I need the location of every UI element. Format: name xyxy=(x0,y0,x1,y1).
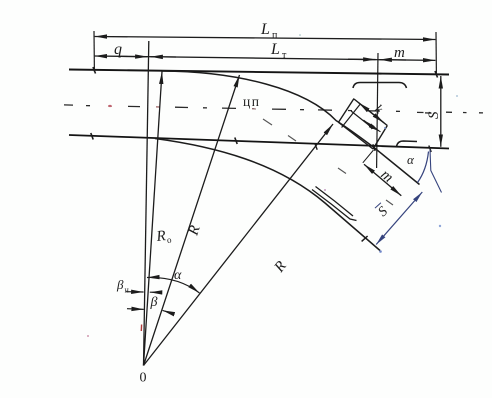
small double arrow inside frog xyxy=(364,120,372,126)
dimension extension line frog center (x=377) xyxy=(377,53,378,168)
turnout upper curve xyxy=(162,71,374,148)
frog inner line parallel top edge xyxy=(351,111,373,128)
beta_n dimension xyxy=(126,291,144,293)
svg-text:н: н xyxy=(125,286,130,295)
m dimension along diagonal xyxy=(364,164,401,196)
tick on bottom rail x=430 xyxy=(429,146,431,153)
tick on top rail at x=94 xyxy=(93,67,96,74)
alpha arc at O xyxy=(147,277,200,293)
svg-text:R: R xyxy=(271,258,290,276)
svg-text:α: α xyxy=(174,268,182,283)
frog block outline xyxy=(339,99,388,150)
k dimension arrows on top edge xyxy=(359,103,371,112)
tick on bottom rail x=316 xyxy=(315,143,317,150)
svg-text:о: о xyxy=(166,234,172,244)
svg-text:S: S xyxy=(426,111,442,119)
svg-text:q: q xyxy=(114,41,122,58)
bracket above bottom rail right xyxy=(397,141,418,147)
svg-text:0: 0 xyxy=(140,371,147,386)
dimension extension line right (x=436) xyxy=(435,32,437,75)
svg-text:β: β xyxy=(116,277,124,292)
diverging track centerline dashes xyxy=(263,119,393,205)
L_t right arrow / m left arrow pair at x=377 xyxy=(348,58,376,60)
bracket pair along lower curve xyxy=(312,190,357,221)
q right arrow pair at x=148.5 xyxy=(120,55,148,57)
label R middle xyxy=(185,224,203,239)
track centerline dash-dot xyxy=(64,105,483,113)
dimension extension line left (x=94) xyxy=(93,31,95,72)
tick frog point on bottom rail x=374 xyxy=(373,144,375,151)
S vertical dimension at right xyxy=(440,76,442,147)
tick on bottom rail x=236 xyxy=(235,138,237,145)
bracket under top rail xyxy=(353,83,407,89)
dimension line L_t / q / m xyxy=(95,56,436,60)
scan noise specks xyxy=(87,34,458,337)
tick at lower curve end xyxy=(362,236,368,241)
turnout lower curve xyxy=(155,139,380,251)
label m diagonal xyxy=(377,167,396,186)
S gauge dimension diagonal (blue) xyxy=(376,192,422,245)
top rail xyxy=(69,70,449,75)
label S vertical xyxy=(426,111,442,119)
radius line R to frog xyxy=(144,124,334,366)
svg-text:m: m xyxy=(394,45,405,61)
tick on bottom rail x=92 xyxy=(91,133,93,140)
radius line R to ts center xyxy=(144,75,240,366)
svg-text:β: β xyxy=(150,295,158,310)
label S diagonal xyxy=(375,203,392,220)
radius line R_o from O xyxy=(144,72,163,366)
svg-text:S: S xyxy=(376,204,391,220)
frog rail below bottom rail xyxy=(374,148,420,185)
svg-text:R: R xyxy=(185,224,203,239)
svg-text:m: m xyxy=(377,167,396,186)
radius line vertical from O xyxy=(144,41,149,366)
svg-text:т: т xyxy=(282,50,287,61)
frog inner line parallel left edge xyxy=(342,104,361,128)
bottom rail xyxy=(69,135,449,149)
label R right xyxy=(271,258,290,276)
alpha arc at frog xyxy=(418,152,429,183)
svg-text:R: R xyxy=(155,228,167,245)
svg-text:L: L xyxy=(270,41,280,58)
svg-text:п: п xyxy=(272,30,278,41)
label k xyxy=(372,101,386,117)
svg-text:k: k xyxy=(372,101,386,117)
svg-text:цп: цп xyxy=(243,94,260,109)
svg-text:α: α xyxy=(407,152,415,167)
beta dimension xyxy=(127,308,144,311)
svg-text:L: L xyxy=(260,21,270,38)
blue extension right of frog rail xyxy=(430,150,442,193)
red mark on vertical line xyxy=(140,325,142,332)
dimension line L_p xyxy=(95,37,436,40)
label R_o xyxy=(155,227,173,246)
extension frog point to m dim xyxy=(363,150,374,163)
tick on top rail at x=436 xyxy=(435,71,438,78)
